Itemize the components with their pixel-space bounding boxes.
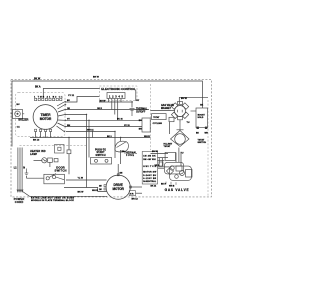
svg-text:6M: 6M bbox=[120, 172, 123, 174]
wire timer row 5 bbox=[66, 126, 142, 128]
svg-text:FUSE: FUSE bbox=[126, 155, 134, 157]
wire fan from timer motor bbox=[57, 102, 65, 107]
svg-text:BU 16: BU 16 bbox=[117, 119, 124, 121]
svg-text:TSTAT: TSTAT bbox=[198, 139, 205, 142]
wire timer bottom terminal stubs bbox=[35, 131, 37, 137]
door switch bbox=[44, 174, 65, 184]
wire left bus bbox=[11, 81, 13, 147]
power cord arrows bbox=[17, 190, 23, 193]
power cord conductors bbox=[17, 148, 19, 192]
timer assembly dashed enclosure bbox=[16, 93, 66, 137]
outer cabinet dashed border bbox=[11, 79, 211, 196]
wire control right drop bbox=[171, 110, 175, 112]
svg-text:WH R: WH R bbox=[92, 190, 98, 192]
console section dashed divider bbox=[20, 145, 87, 147]
timer terminal row top bbox=[35, 98, 62, 100]
terminal block small bbox=[67, 150, 71, 154]
svg-text:TU: TU bbox=[187, 122, 190, 124]
indicator lamp bbox=[42, 158, 58, 163]
svg-text:MOTOR: MOTOR bbox=[112, 187, 124, 191]
wire sensor top to L1 bbox=[179, 96, 208, 98]
burner section dashed divider bbox=[150, 84, 152, 150]
wire door switch ground bbox=[27, 177, 44, 179]
svg-text:BU W: BU W bbox=[152, 151, 159, 153]
svg-text:1 TMR A1 B2 C1: 1 TMR A1 B2 C1 bbox=[34, 95, 63, 98]
svg-text:BU W: BU W bbox=[181, 98, 188, 100]
svg-text:BK 13: BK 13 bbox=[33, 139, 40, 141]
wire door switch to motor (YL W) bbox=[66, 179, 107, 181]
electronic control dashed enclosure bbox=[99, 86, 137, 101]
svg-text:CORD: CORD bbox=[15, 200, 24, 204]
svg-text:BR R: BR R bbox=[155, 165, 160, 167]
svg-text:CY 21: CY 21 bbox=[68, 95, 75, 97]
svg-text:OR R: OR R bbox=[97, 108, 103, 110]
svg-text:N R: N R bbox=[130, 194, 134, 196]
wire control terminal stubs bbox=[108, 99, 110, 103]
wire second center drop bbox=[88, 120, 90, 157]
svg-text:SWITCH: SWITCH bbox=[96, 155, 106, 157]
svg-text:BK W: BK W bbox=[78, 192, 85, 194]
gas valve coil assembly circle bbox=[171, 101, 188, 119]
svg-text:BR: BR bbox=[139, 129, 143, 131]
svg-text:ELECTRONIC CONTROL: ELECTRONIC CONTROL bbox=[101, 87, 136, 91]
wire igniter stub bbox=[178, 148, 180, 163]
door switch feed wire bbox=[68, 138, 70, 150]
wire motor right (BK R) bbox=[136, 192, 143, 194]
wire coil box to hi-limit bbox=[169, 122, 171, 134]
wire sensor circle bottom stub bbox=[179, 120, 181, 122]
cycling thermostat box bbox=[152, 114, 167, 120]
svg-text:HOLD: HOLD bbox=[198, 117, 204, 119]
wire BK A to electronic control bbox=[43, 88, 100, 91]
motor terminal block right bbox=[129, 191, 135, 196]
svg-text:BU: BU bbox=[139, 120, 143, 122]
drive motor terminals bbox=[104, 174, 131, 190]
push to start switch bbox=[91, 158, 112, 165]
wire timer row 4 bbox=[66, 119, 142, 121]
wire thermal cutoff drop bbox=[131, 101, 133, 108]
wire lamp feed bbox=[34, 159, 42, 161]
svg-text:GY 15: GY 15 bbox=[124, 125, 131, 127]
svg-text:EXTRA LINE NOT USED ON SOME: EXTRA LINE NOT USED ON SOME bbox=[31, 196, 75, 199]
wire push-start drop bbox=[114, 131, 116, 158]
svg-text:1 2 3 4 5: 1 2 3 4 5 bbox=[109, 94, 124, 98]
timer terminal row bottom bbox=[35, 129, 52, 131]
thermal cutoff symbol bbox=[130, 109, 135, 117]
svg-text:MODELS IN PLATE TERMINAL BLOCK: MODELS IN PLATE TERMINAL BLOCK bbox=[31, 199, 74, 202]
svg-text:TSTAT: TSTAT bbox=[153, 116, 160, 119]
svg-text:TU: TU bbox=[181, 153, 184, 155]
wire centrifugal to motor bbox=[117, 164, 119, 175]
gas valve terminal ticks bbox=[166, 182, 176, 185]
wire timer row 2 bbox=[66, 109, 149, 111]
svg-text:WH R: WH R bbox=[144, 136, 150, 138]
wire timer to control (CY) bbox=[66, 97, 100, 103]
svg-text:GAS VALVE: GAS VALVE bbox=[165, 188, 189, 192]
svg-text:HEATER IND: HEATER IND bbox=[30, 150, 46, 153]
igniter bbox=[171, 122, 190, 147]
svg-text:3M: 3M bbox=[99, 185, 102, 187]
svg-text:CUTOFF: CUTOFF bbox=[136, 111, 146, 113]
wire BK A drop to timer bbox=[42, 89, 44, 99]
svg-text:SWITCH: SWITCH bbox=[198, 142, 207, 144]
svg-text:MAGNET: MAGNET bbox=[161, 107, 172, 110]
svg-text:BK 14: BK 14 bbox=[151, 184, 158, 187]
svg-text:BR 12: BR 12 bbox=[132, 199, 139, 201]
aux relay tall box bbox=[142, 118, 150, 132]
svg-text:1M: 1M bbox=[99, 189, 102, 191]
svg-text:MOTOR SW: MOTOR SW bbox=[143, 172, 156, 174]
svg-text:BUZZER: BUZZER bbox=[18, 118, 28, 122]
svg-text:3M 4M WH: 3M 4M WH bbox=[143, 158, 156, 161]
svg-text:N: N bbox=[23, 166, 25, 169]
wire BU W bus under control bbox=[99, 101, 133, 103]
centrifugal switch bbox=[115, 141, 129, 152]
svg-text:BK W: BK W bbox=[34, 79, 41, 81]
motor switch legend box bbox=[142, 152, 157, 185]
timer terminal dots bbox=[64, 101, 67, 132]
svg-text:CYCLING: CYCLING bbox=[153, 123, 163, 125]
timer motor TM bbox=[33, 105, 58, 130]
wire BK lower bus bbox=[30, 137, 151, 139]
wire timer row 3 bbox=[66, 115, 87, 188]
svg-text:5-240V BU: 5-240V BU bbox=[143, 174, 156, 177]
svg-text:LAMP: LAMP bbox=[30, 153, 37, 156]
svg-text:N-NEUTRAL: N-NEUTRAL bbox=[143, 180, 157, 183]
wire L1 top (BK W) bbox=[12, 81, 202, 108]
lamp drop wire bbox=[49, 162, 51, 167]
svg-text:6-120V BR: 6-120V BR bbox=[143, 178, 156, 180]
svg-text:WH: WH bbox=[205, 133, 209, 135]
svg-text:SWITCH: SWITCH bbox=[55, 169, 67, 173]
svg-text:1M 2M BK: 1M 2M BK bbox=[143, 155, 156, 157]
svg-text:MOTOR: MOTOR bbox=[40, 117, 52, 121]
radiant sensor box bbox=[191, 108, 208, 128]
cycling tstat small box bbox=[165, 152, 175, 160]
electronic control box bbox=[107, 93, 125, 99]
svg-text:BK A: BK A bbox=[35, 85, 41, 88]
svg-text:YL W: YL W bbox=[78, 178, 84, 180]
radiant sensor terminals bbox=[197, 127, 208, 129]
wire valve feed verticals bbox=[175, 153, 177, 163]
wire neutral bottom bus bbox=[23, 192, 107, 197]
wire motor switch to gas valve bbox=[158, 157, 169, 159]
drum light assembly box bbox=[55, 145, 65, 154]
wire sensor circle top stub bbox=[178, 97, 180, 104]
svg-text:START: START bbox=[97, 151, 106, 154]
svg-text:5M: 5M bbox=[122, 151, 125, 153]
gas valve coil cluster bbox=[164, 162, 192, 180]
wire timer row 6 (WH) bbox=[66, 130, 115, 132]
wire door switch lower to motor bbox=[64, 188, 107, 192]
burner right dashed divider bbox=[207, 100, 209, 196]
svg-text:BOOST: BOOST bbox=[198, 114, 206, 116]
svg-text:WH 11: WH 11 bbox=[87, 130, 94, 132]
wire motor right upper bbox=[130, 186, 142, 188]
buzzer BZ bbox=[11, 110, 25, 119]
coil side terminal box bbox=[169, 117, 174, 121]
junction dots bbox=[68, 114, 121, 138]
drive motor bbox=[106, 175, 130, 199]
svg-text:GAS VALVE: GAS VALVE bbox=[161, 104, 174, 107]
svg-text:BK R: BK R bbox=[161, 184, 166, 186]
svg-text:BK W: BK W bbox=[93, 77, 100, 79]
gas valve left terminal bbox=[158, 162, 164, 169]
svg-text:THERMAL: THERMAL bbox=[136, 108, 148, 111]
svg-text:TSTAT: TSTAT bbox=[164, 145, 171, 148]
chassis ground bbox=[25, 169, 29, 177]
wire WH drop junction bbox=[91, 131, 93, 137]
svg-text:THERMAL: THERMAL bbox=[124, 152, 137, 155]
svg-text:BU W: BU W bbox=[100, 101, 107, 103]
